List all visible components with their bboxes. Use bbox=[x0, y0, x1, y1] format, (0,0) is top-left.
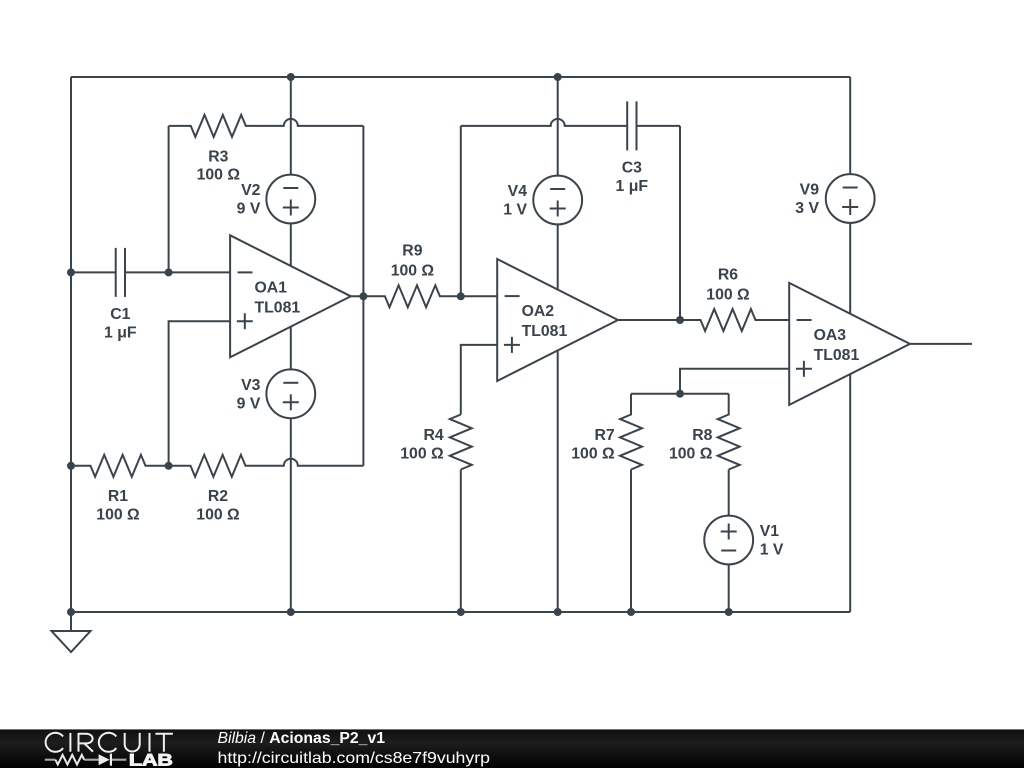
svg-text:100 Ω: 100 Ω bbox=[391, 263, 435, 280]
svg-text:OA2: OA2 bbox=[522, 303, 555, 320]
svg-text:1 μF: 1 μF bbox=[616, 178, 649, 195]
svg-text:R6: R6 bbox=[718, 266, 738, 283]
svg-text:3 V: 3 V bbox=[795, 200, 819, 217]
svg-text:R2: R2 bbox=[208, 488, 228, 505]
svg-text:1 V: 1 V bbox=[760, 542, 784, 559]
svg-text:100 Ω: 100 Ω bbox=[669, 445, 713, 462]
svg-text:Bilbia / Acionas_P2_v1: Bilbia / Acionas_P2_v1 bbox=[218, 730, 386, 747]
svg-text:100 Ω: 100 Ω bbox=[196, 507, 240, 524]
svg-text:100 Ω: 100 Ω bbox=[197, 167, 241, 184]
svg-text:100 Ω: 100 Ω bbox=[571, 445, 615, 462]
svg-text:R7: R7 bbox=[594, 427, 614, 444]
svg-text:9 V: 9 V bbox=[237, 201, 261, 218]
svg-text:R1: R1 bbox=[108, 488, 128, 505]
svg-text:R4: R4 bbox=[423, 427, 443, 444]
svg-text:OA1: OA1 bbox=[255, 279, 288, 296]
svg-text:V1: V1 bbox=[760, 523, 780, 540]
svg-text:V3: V3 bbox=[241, 377, 261, 394]
svg-text:100 Ω: 100 Ω bbox=[400, 445, 444, 462]
svg-text:V2: V2 bbox=[241, 182, 261, 199]
svg-text:LAB: LAB bbox=[129, 751, 173, 768]
svg-text:1 μF: 1 μF bbox=[104, 325, 137, 342]
svg-text:http://circuitlab.com/cs8e7f9v: http://circuitlab.com/cs8e7f9vuhyrp bbox=[218, 750, 491, 767]
svg-text:TL081: TL081 bbox=[522, 323, 568, 340]
svg-text:1 V: 1 V bbox=[503, 202, 527, 219]
svg-text:C1: C1 bbox=[110, 306, 130, 323]
svg-text:9 V: 9 V bbox=[237, 395, 261, 412]
svg-text:R3: R3 bbox=[208, 148, 228, 165]
svg-text:100 Ω: 100 Ω bbox=[706, 286, 750, 303]
svg-text:V9: V9 bbox=[800, 182, 820, 199]
svg-text:R8: R8 bbox=[692, 427, 712, 444]
svg-text:TL081: TL081 bbox=[255, 299, 301, 316]
svg-text:OA3: OA3 bbox=[814, 327, 847, 344]
svg-text:R9: R9 bbox=[402, 243, 422, 260]
svg-text:C3: C3 bbox=[622, 159, 642, 176]
svg-text:100 Ω: 100 Ω bbox=[96, 507, 140, 524]
svg-text:V4: V4 bbox=[508, 183, 528, 200]
svg-text:TL081: TL081 bbox=[814, 347, 860, 364]
